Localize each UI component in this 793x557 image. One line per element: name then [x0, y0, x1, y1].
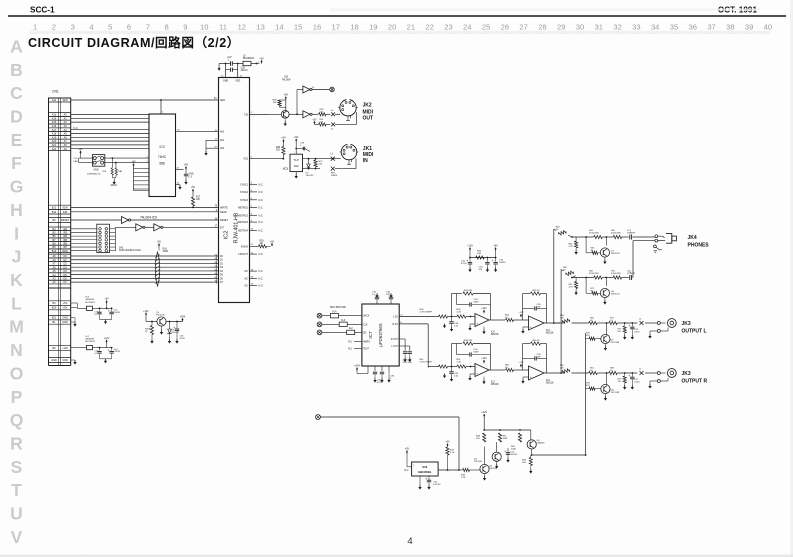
- svg-text:10Ω: 10Ω: [477, 253, 481, 255]
- svg-text:100K: 100K: [503, 438, 509, 440]
- svg-text:470(1/2W): 470(1/2W): [611, 273, 621, 275]
- svg-text:METRO2: METRO2: [238, 214, 249, 217]
- svg-text:RD5.6E: RD5.6E: [172, 332, 180, 334]
- svg-text:36: 36: [689, 23, 697, 32]
- svg-text:+: +: [476, 322, 478, 326]
- svg-text:FSKIN: FSKIN: [241, 245, 248, 248]
- svg-text:10/16: 10/16: [634, 381, 640, 383]
- svg-text:+5V: +5V: [281, 137, 286, 140]
- svg-text:+: +: [492, 259, 494, 263]
- svg-text:2.2K: 2.2K: [457, 311, 462, 313]
- svg-text:SCC-1: SCC-1: [30, 6, 55, 15]
- svg-text:+5V: +5V: [63, 307, 68, 310]
- svg-text:33: 33: [632, 23, 640, 32]
- svg-text:8: 8: [165, 23, 169, 32]
- svg-text:+5V: +5V: [131, 161, 136, 164]
- svg-text:39: 39: [745, 23, 753, 32]
- svg-text:D: D: [10, 106, 23, 126]
- svg-text:2.2K: 2.2K: [457, 361, 462, 363]
- svg-text:100/16: 100/16: [241, 70, 249, 72]
- svg-text:47K: 47K: [586, 385, 590, 387]
- svg-text:4.7K/1%BPF: 4.7K/1%BPF: [420, 361, 433, 363]
- svg-text:METRO4: METRO4: [238, 229, 249, 232]
- svg-text:3A5A-4010B-D-100Ω: 3A5A-4010B-D-100Ω: [119, 249, 141, 252]
- svg-text:2: 2: [52, 23, 56, 32]
- svg-text:L: L: [11, 293, 22, 313]
- svg-text:13: 13: [256, 23, 264, 32]
- svg-text:GND: GND: [62, 321, 68, 324]
- svg-text:U: U: [10, 504, 23, 524]
- svg-text:PHONES: PHONES: [688, 243, 710, 249]
- svg-text:P: P: [11, 387, 23, 407]
- svg-text:IC3: IC3: [160, 145, 165, 149]
- svg-text:R44 22K: R44 22K: [464, 290, 473, 292]
- svg-text:4.7K/1%BPF: 4.7K/1%BPF: [420, 311, 433, 313]
- svg-text:6: 6: [127, 23, 131, 32]
- svg-text:B10: B10: [52, 250, 57, 253]
- svg-text:+5V: +5V: [294, 136, 299, 139]
- svg-text:NC: NC: [245, 277, 249, 280]
- svg-text:24: 24: [463, 23, 471, 32]
- svg-text:IC1: IC1: [283, 167, 288, 171]
- svg-text:23: 23: [444, 23, 452, 32]
- svg-text:H: H: [10, 200, 23, 220]
- svg-text:10K: 10K: [560, 317, 564, 319]
- svg-text:S: S: [11, 457, 23, 477]
- svg-text:WRITE: WRITE: [220, 206, 228, 209]
- svg-text:A22: A22: [52, 148, 57, 151]
- svg-text:AEN: AEN: [220, 99, 225, 102]
- svg-text:5: 5: [108, 23, 112, 32]
- svg-text:G: G: [10, 177, 24, 197]
- svg-text:OUT: OUT: [363, 116, 374, 122]
- svg-text:+5V: +5V: [312, 119, 317, 121]
- svg-text:100/16: 100/16: [499, 262, 506, 264]
- svg-text:IC7: IC7: [368, 331, 373, 339]
- svg-text:-: -: [476, 315, 477, 319]
- svg-text:OUTPUT R: OUTPUT R: [682, 379, 708, 385]
- svg-text:1M: 1M: [260, 243, 263, 245]
- svg-text:R49 1K: R49 1K: [532, 340, 540, 342]
- svg-text:CN1: CN1: [52, 90, 59, 94]
- svg-text:A11: A11: [52, 99, 57, 102]
- svg-text:+: +: [629, 374, 631, 378]
- svg-text:10/16: 10/16: [634, 331, 640, 333]
- svg-text:47/16NP: 47/16NP: [627, 273, 636, 275]
- svg-text:SDO-SB747AB: SDO-SB747AB: [330, 306, 346, 309]
- svg-text:METRO3: METRO3: [238, 221, 249, 224]
- svg-text:7: 7: [146, 23, 150, 32]
- svg-text:SYNC3: SYNC3: [240, 199, 249, 202]
- svg-text:4.7K: 4.7K: [450, 452, 455, 454]
- svg-text:BL03RK81: BL03RK81: [243, 58, 255, 60]
- svg-text:M5218: M5218: [491, 383, 499, 386]
- svg-text:10: 10: [200, 23, 208, 32]
- svg-text:M5218: M5218: [491, 333, 499, 336]
- svg-text:N.C: N.C: [259, 221, 264, 224]
- svg-text:IOW: IOW: [63, 207, 69, 210]
- svg-text:N: N: [10, 340, 23, 360]
- svg-text:C: C: [10, 83, 23, 103]
- svg-text:27: 27: [519, 23, 527, 32]
- svg-text:100K: 100K: [511, 448, 517, 450]
- svg-text:47/16NP: 47/16NP: [627, 233, 636, 235]
- svg-text:9: 9: [183, 23, 187, 32]
- svg-text:1/50 1/50: 1/50 1/50: [403, 362, 413, 364]
- svg-text:74LS04 IC5: 74LS04 IC5: [140, 216, 157, 220]
- svg-text:HB1000BL: HB1000BL: [418, 470, 432, 474]
- svg-text:25: 25: [482, 23, 490, 32]
- svg-text:54604: 54604: [331, 175, 338, 177]
- svg-text:2.2K: 2.2K: [461, 477, 466, 479]
- svg-text:470(1/2W): 470(1/2W): [589, 273, 599, 275]
- svg-text:32: 32: [613, 23, 621, 32]
- svg-text:B31: B31: [52, 317, 57, 320]
- svg-text:NC: NC: [245, 285, 249, 288]
- svg-text:47/16: 47/16: [377, 382, 383, 384]
- svg-text:MC2SE71: MC2SE71: [85, 341, 96, 343]
- svg-text:+12V: +12V: [481, 358, 487, 360]
- svg-text:IC8: IC8: [422, 465, 427, 469]
- svg-text:2SA933: 2SA933: [537, 441, 546, 444]
- svg-text:GND: GND: [62, 359, 68, 362]
- svg-text:2SC945: 2SC945: [474, 461, 483, 463]
- svg-text:28: 28: [538, 23, 546, 32]
- svg-text:+5V: +5V: [63, 302, 68, 305]
- svg-text:560P: 560P: [474, 301, 480, 303]
- svg-text:+6X4: +6X4: [180, 317, 186, 319]
- svg-text:N.C: N.C: [259, 229, 264, 232]
- svg-text:2SC2458: 2SC2458: [611, 392, 621, 394]
- svg-text:TLP: TLP: [294, 158, 299, 162]
- svg-text:+: +: [108, 348, 110, 352]
- svg-text:+5V: +5V: [405, 448, 410, 451]
- svg-text:N.C: N.C: [259, 277, 264, 280]
- svg-text:N.C: N.C: [348, 341, 352, 344]
- svg-text:47K: 47K: [586, 335, 590, 337]
- svg-text:11: 11: [219, 23, 227, 32]
- svg-text:+12V: +12V: [518, 362, 524, 364]
- svg-text:12: 12: [238, 23, 246, 32]
- svg-text:+12V: +12V: [481, 411, 487, 414]
- svg-text:+12V: +12V: [143, 311, 149, 313]
- svg-text:1: 1: [33, 23, 37, 32]
- svg-text:GND: GND: [62, 317, 68, 320]
- svg-text:A00: A00: [220, 131, 225, 134]
- svg-text:152: 152: [294, 164, 299, 168]
- svg-text:N.C: N.C: [259, 270, 264, 273]
- svg-text:R OUT: R OUT: [391, 339, 399, 341]
- svg-text:GND: GND: [94, 170, 99, 172]
- svg-text:B13: B13: [52, 207, 57, 210]
- svg-text:R48 1K: R48 1K: [532, 290, 540, 292]
- svg-text:V: V: [11, 527, 23, 547]
- svg-text:+: +: [108, 309, 110, 313]
- svg-text:IC2: IC2: [224, 231, 230, 240]
- svg-text:74HC: 74HC: [158, 155, 167, 159]
- svg-text:18: 18: [350, 23, 358, 32]
- svg-text:+6V4: +6V4: [354, 365, 360, 368]
- svg-text:+5V: +5V: [78, 148, 83, 151]
- svg-text:RESET: RESET: [220, 219, 229, 222]
- svg-text:CLK: CLK: [363, 324, 368, 326]
- svg-text:+: +: [629, 324, 631, 328]
- svg-text:+5V: +5V: [105, 299, 110, 301]
- svg-text:R: R: [10, 434, 23, 454]
- svg-text:INT: INT: [220, 226, 224, 229]
- svg-text:I: I: [14, 223, 19, 243]
- svg-text:M5218: M5218: [546, 382, 554, 385]
- svg-text:56P: 56P: [537, 356, 541, 358]
- svg-text:40: 40: [764, 23, 772, 32]
- svg-text:CIRCUIT DIAGRAM/回路図（2/2）: CIRCUIT DIAGRAM/回路図（2/2）: [28, 35, 240, 50]
- svg-text:+5V: +5V: [191, 186, 196, 189]
- svg-text:10P: 10P: [386, 294, 390, 296]
- svg-text:A/BPS: A/BPS: [363, 341, 370, 344]
- svg-text:GND: GND: [51, 359, 57, 362]
- svg-text:LRCK: LRCK: [363, 316, 370, 318]
- svg-text:4: 4: [89, 23, 93, 32]
- svg-text:22: 22: [425, 23, 433, 32]
- svg-text:29: 29: [557, 23, 565, 32]
- svg-text:T32: T32: [244, 113, 249, 116]
- svg-text:+12V: +12V: [481, 308, 487, 310]
- svg-text:B29: B29: [52, 307, 57, 310]
- svg-text:N.C: N.C: [259, 285, 264, 288]
- svg-text:VO2: VO2: [243, 158, 248, 161]
- svg-text:220/16: 220/16: [114, 351, 121, 353]
- svg-text:J: J: [12, 247, 22, 267]
- svg-text:2SD2213: 2SD2213: [611, 253, 621, 255]
- svg-text:26: 26: [501, 23, 509, 32]
- svg-text:SD: SD: [363, 332, 367, 334]
- svg-text:17: 17: [332, 23, 340, 32]
- svg-text:IOR: IOR: [63, 211, 68, 214]
- svg-text:10K: 10K: [522, 462, 526, 464]
- svg-text:K: K: [10, 270, 23, 290]
- svg-text:+12V: +12V: [104, 338, 110, 340]
- svg-text:38: 38: [726, 23, 734, 32]
- svg-text:560P: 560P: [474, 351, 480, 353]
- svg-text:-: -: [530, 318, 531, 322]
- svg-text:L SC: L SC: [393, 317, 398, 319]
- svg-text:-: -: [530, 368, 531, 372]
- svg-text:+: +: [466, 259, 468, 263]
- svg-text:M: M: [9, 317, 24, 337]
- svg-text:N.C: N.C: [259, 199, 264, 202]
- svg-text:37: 37: [707, 23, 715, 32]
- svg-text:M5218: M5218: [546, 332, 554, 335]
- svg-text:34: 34: [651, 23, 659, 32]
- svg-text:+: +: [504, 450, 506, 454]
- svg-text:DRQ: DRQ: [62, 250, 68, 253]
- svg-text:220/16: 220/16: [114, 312, 121, 314]
- svg-text:+5V: +5V: [157, 241, 162, 244]
- svg-text:+: +: [476, 372, 478, 376]
- svg-text:+: +: [530, 325, 532, 329]
- svg-text:4.7K: 4.7K: [569, 246, 574, 248]
- svg-text:R45 22K: R45 22K: [464, 340, 473, 342]
- svg-text:N.C: N.C: [404, 469, 408, 472]
- svg-text:JK3: JK3: [682, 321, 691, 327]
- svg-text:0.47/50: 0.47/50: [433, 484, 441, 486]
- svg-text:OUTPUT L: OUTPUT L: [682, 329, 707, 335]
- svg-text:100Ω: 100Ω: [163, 251, 169, 253]
- svg-text:688: 688: [159, 162, 165, 166]
- svg-text:N.C: N.C: [259, 214, 264, 217]
- svg-text:19: 19: [369, 23, 377, 32]
- svg-text:16: 16: [313, 23, 321, 32]
- svg-text:SYNC2: SYNC2: [240, 191, 249, 194]
- svg-text:N.C: N.C: [259, 183, 264, 186]
- svg-text:+5V: +5V: [259, 58, 264, 61]
- svg-text:3: 3: [71, 23, 75, 32]
- svg-text:74LS04: 74LS04: [282, 77, 292, 81]
- svg-text:B14: B14: [52, 211, 57, 214]
- svg-text:31: 31: [595, 23, 603, 32]
- svg-text:A01: A01: [220, 139, 225, 142]
- svg-text:+5V: +5V: [445, 442, 450, 444]
- svg-text:-: -: [476, 365, 477, 369]
- svg-text:T: T: [11, 480, 22, 500]
- svg-text:2SC3730: 2SC3730: [156, 315, 166, 317]
- svg-text:10K: 10K: [273, 102, 277, 104]
- svg-text:+5V: +5V: [284, 94, 289, 97]
- svg-text:N.C: N.C: [348, 348, 352, 351]
- svg-text:10/16V: 10/16V: [511, 454, 518, 456]
- svg-text:RESET: RESET: [61, 219, 70, 222]
- svg-text:N.C: N.C: [259, 207, 264, 210]
- svg-text:+12V: +12V: [467, 245, 473, 248]
- svg-text:FSKOUT: FSKOUT: [238, 253, 248, 256]
- svg-text:SYNC1: SYNC1: [240, 183, 249, 186]
- svg-text:L OUT: L OUT: [391, 346, 398, 348]
- svg-text:10K: 10K: [560, 367, 564, 369]
- svg-text:O: O: [10, 363, 24, 383]
- svg-text:+: +: [173, 326, 175, 330]
- svg-text:GND: GND: [223, 79, 229, 82]
- svg-text:33Kx2: 33Kx2: [110, 185, 117, 187]
- svg-text:470(1/2W): 470(1/2W): [611, 233, 621, 235]
- svg-text:N.C: N.C: [259, 253, 264, 256]
- svg-text:READ: READ: [220, 211, 227, 214]
- svg-text:+5V: +5V: [270, 241, 275, 243]
- svg-text:2SD2213: 2SD2213: [611, 293, 621, 295]
- svg-text:+5V: +5V: [184, 164, 189, 167]
- svg-text:JK2: JK2: [363, 103, 372, 109]
- svg-text:μPD63766S: μPD63766S: [378, 323, 383, 346]
- svg-text:220HB300 1b: 220HB300 1b: [87, 174, 101, 176]
- svg-text:56P: 56P: [537, 306, 541, 308]
- svg-text:F: F: [11, 153, 22, 173]
- svg-text:20: 20: [388, 23, 396, 32]
- svg-text:JK3: JK3: [682, 371, 691, 377]
- svg-text:NC: NC: [245, 270, 249, 273]
- svg-text:21: 21: [407, 23, 415, 32]
- svg-text:15: 15: [294, 23, 302, 32]
- svg-text:GND: GND: [189, 174, 194, 176]
- svg-text:A: A: [10, 36, 23, 56]
- svg-text:A02: A02: [220, 147, 225, 150]
- svg-text:470(1/2W): 470(1/2W): [589, 233, 599, 235]
- svg-text:Q: Q: [10, 410, 24, 430]
- svg-text:IN: IN: [363, 158, 368, 164]
- svg-text:B: B: [10, 60, 23, 80]
- svg-text:JK4: JK4: [688, 235, 697, 241]
- svg-text:47/16: 47/16: [461, 263, 467, 265]
- svg-text:N.C: N.C: [259, 191, 264, 194]
- svg-text:VDD: VDD: [235, 79, 240, 82]
- svg-text:1SS133: 1SS133: [306, 175, 315, 177]
- svg-text:MC2SE71: MC2SE71: [85, 302, 96, 304]
- svg-text:2SC2458: 2SC2458: [611, 342, 621, 344]
- svg-text:+: +: [530, 375, 532, 379]
- svg-text:4.7K: 4.7K: [569, 286, 574, 288]
- svg-text:30: 30: [576, 23, 584, 32]
- svg-text:R SC: R SC: [393, 324, 399, 326]
- svg-text:4: 4: [407, 536, 412, 547]
- svg-text:TEST: TEST: [363, 349, 369, 351]
- svg-text:E: E: [11, 130, 23, 150]
- svg-text:14: 14: [275, 23, 283, 32]
- svg-text:+12V: +12V: [518, 312, 524, 314]
- svg-text:47/16: 47/16: [180, 338, 186, 340]
- svg-text:+12V: +12V: [62, 347, 68, 350]
- svg-text:35: 35: [670, 23, 678, 32]
- svg-text:2SC945: 2SC945: [489, 468, 498, 470]
- svg-text:AEN: AEN: [63, 99, 68, 102]
- svg-text:METRO1: METRO1: [238, 207, 249, 210]
- svg-text:+6V: +6V: [493, 245, 498, 248]
- svg-text:+: +: [425, 477, 427, 481]
